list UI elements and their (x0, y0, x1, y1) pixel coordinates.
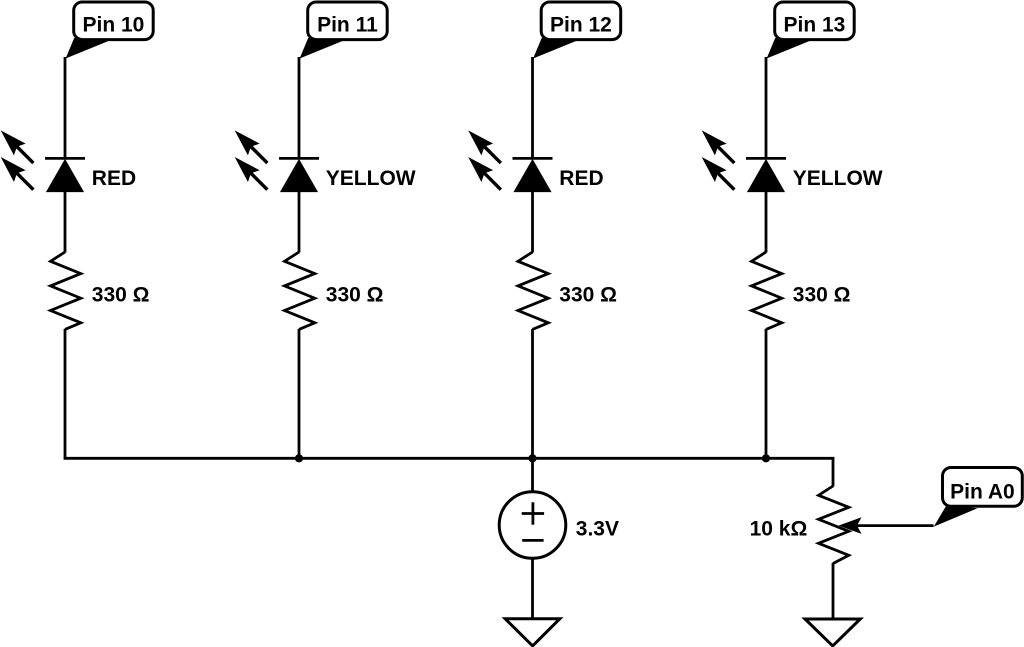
pin label callout Pin 10 (66, 2, 154, 59)
wire bus (bottom horizontal net) (64, 457, 835, 460)
wire bus to voltage source V1 (531, 458, 534, 492)
ground (below V1) (505, 619, 560, 646)
svg-text:330 Ω: 330 Ω (793, 283, 851, 306)
resistor R4 330 ohm (752, 252, 782, 329)
LED D2 (279, 158, 319, 191)
pin label callout Pin 11 (300, 2, 388, 59)
svg-text:330 Ω: 330 Ω (559, 283, 617, 306)
svg-text:YELLOW: YELLOW (793, 167, 883, 190)
wire bus to potentiometer RV1 (832, 458, 835, 486)
voltage source V1 3.3V (499, 492, 566, 559)
wire LED D1 to resistor R1 (64, 191, 67, 253)
wire potentiometer RV1 to ground (832, 563, 835, 619)
junction node at Pin 11 branch (295, 454, 303, 462)
svg-text:RED: RED (92, 167, 136, 190)
LED D3 light emission arrows (462, 125, 501, 190)
LED D4 (746, 158, 786, 191)
wire Pin 11 to LED D2 (298, 57, 301, 158)
svg-text:Pin 12: Pin 12 (550, 14, 612, 37)
wire LED D4 to resistor R4 (765, 191, 768, 253)
wire voltage source V1 to ground (531, 558, 534, 619)
LED D3 (513, 158, 553, 191)
svg-text:Pin 11: Pin 11 (317, 14, 378, 37)
wire wiper to Pin A0 callout (855, 524, 934, 527)
wire Pin 10 to LED D1 (64, 57, 67, 158)
potentiometer RV1 wiper arrow (839, 517, 862, 534)
svg-text:Pin A0: Pin A0 (950, 480, 1015, 503)
svg-text:YELLOW: YELLOW (326, 167, 416, 190)
svg-text:330 Ω: 330 Ω (92, 283, 150, 306)
pin label callout Pin 13 (767, 2, 855, 59)
wire resistor R3 to bus (531, 329, 534, 458)
ground (below RV1) (805, 619, 860, 646)
pin label callout Pin A0 (934, 468, 1023, 527)
LED D1 (45, 158, 85, 191)
resistor R3 330 ohm (518, 252, 548, 329)
wire Pin 12 to LED D3 (531, 57, 534, 158)
svg-text:Pin 10: Pin 10 (83, 14, 145, 37)
wire LED D2 to resistor R2 (298, 191, 301, 253)
svg-text:RED: RED (559, 167, 603, 190)
wire Pin 13 to LED D4 (765, 57, 768, 158)
svg-text:10 kΩ: 10 kΩ (750, 518, 808, 541)
wire LED D3 to resistor R3 (531, 191, 534, 253)
svg-text:Pin 13: Pin 13 (784, 14, 846, 37)
LED D2 light emission arrows (229, 125, 268, 190)
junction node at Pin 12 branch (528, 454, 536, 462)
potentiometer RV1 10 kΩ (resistor body) (819, 486, 849, 564)
svg-text:3.3V: 3.3V (576, 518, 619, 541)
wire resistor R2 to bus (298, 329, 301, 458)
wire resistor R4 to bus (765, 329, 768, 458)
pin label callout Pin 12 (533, 2, 621, 59)
resistor R1 330 ohm (51, 252, 81, 329)
svg-text:330 Ω: 330 Ω (326, 283, 384, 306)
LED D4 light emission arrows (696, 125, 735, 190)
junction node at Pin 13 branch (762, 454, 770, 462)
LED D1 light emission arrows (0, 125, 33, 190)
resistor R2 330 ohm (285, 252, 315, 329)
wire resistor R1 to bus (64, 329, 67, 458)
